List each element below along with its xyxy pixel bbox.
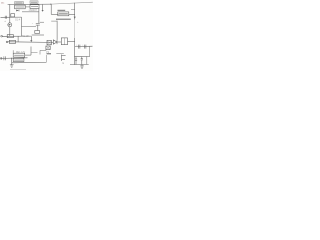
wire top rail right (fainter) bbox=[51, 2, 93, 4]
wire vertical x=51.2 from rail bbox=[50, 4, 52, 14]
wire top rail left bbox=[8, 3, 52, 5]
wire vertical x=46.3 bbox=[45, 55, 47, 62]
wire U2 to right rail bbox=[68, 41, 75, 43]
wire vertical x=40 bbox=[39, 50, 41, 54]
capacitor C7 plates bbox=[3, 56, 5, 60]
capacitor C1 plates bbox=[4, 16, 6, 19]
wire vertical x=89.6 bbox=[89, 46, 91, 56]
junction bottom right bbox=[74, 56, 75, 57]
IC U3 label text bbox=[58, 9, 66, 11]
wire to C2 from x=21.5 bbox=[22, 26, 37, 28]
dark dash bbox=[47, 53, 52, 55]
label near C2 bbox=[40, 21, 44, 23]
rectifier B1 box bbox=[15, 5, 26, 9]
capacitor C8 bbox=[75, 57, 77, 59]
wire vertical x=46 bbox=[45, 49, 47, 52]
wire to IC box bbox=[51, 13, 58, 15]
wire input y=17.2 bbox=[1, 16, 22, 18]
relay box K1 bbox=[13, 53, 25, 57]
wire U3 right to rail bbox=[69, 14, 75, 16]
wire stub x=42.6 with arrow bbox=[42, 5, 44, 11]
bottom main wire bbox=[1, 57, 28, 60]
ground G1 bbox=[11, 58, 13, 64]
capacitor C2 plates bbox=[36, 22, 40, 24]
arrow down (ground stub) bbox=[30, 36, 32, 41]
resistor R1 box bbox=[7, 35, 13, 38]
wire vertical x=86.8 bbox=[86, 56, 88, 64]
wire vertical x=57.1 bbox=[56, 21, 58, 40]
right rail vertical x=74.7 bbox=[74, 3, 76, 20]
diode D below B1 bbox=[16, 10, 19, 12]
LED D5 bbox=[9, 17, 11, 23]
component P2 box with X bbox=[46, 46, 50, 50]
svg-text:AC: AC bbox=[1, 2, 4, 5]
component box C3 bbox=[35, 31, 40, 34]
wire horizontal y=11.8 from B1 area to vertical bbox=[22, 11, 39, 13]
arrowhead on rail bbox=[74, 17, 76, 19]
svg-text:D1-4: D1-4 bbox=[15, 19, 21, 21]
connector J2 bbox=[61, 55, 63, 62]
component box on wire bbox=[11, 14, 15, 17]
wire y=21.1 bbox=[51, 20, 57, 22]
wire B1 to U1 bbox=[25, 6, 30, 8]
transformer T1 label box bbox=[15, 2, 24, 4]
capacitor C9 bbox=[81, 57, 83, 59]
wire relay contact right bbox=[31, 52, 38, 54]
capacitor C6 bbox=[83, 45, 85, 49]
terminal bottom left bbox=[0, 58, 2, 60]
regulator U1 label box bbox=[30, 1, 38, 4]
box K1b bbox=[13, 58, 24, 61]
svg-text:1N4007: 1N4007 bbox=[29, 9, 38, 12]
junction on rail bbox=[50, 4, 51, 5]
faint bottom rail bbox=[10, 69, 26, 71]
wire y=50.4 bbox=[40, 49, 46, 51]
label row under C3 bbox=[32, 34, 44, 36]
faint label bbox=[56, 52, 64, 54]
wire y=45.8 right bbox=[75, 45, 93, 47]
bottom right wire y=64.5 bbox=[70, 63, 89, 65]
IC U3 box bbox=[58, 12, 69, 16]
junction bbox=[11, 58, 12, 59]
wire vertical under U1 x=38.9 bbox=[38, 9, 40, 24]
stub wire bbox=[71, 9, 75, 11]
wire K1 right bbox=[25, 54, 31, 56]
wire triangle to U2 bbox=[57, 41, 61, 43]
wire y=62.6 bbox=[12, 61, 47, 63]
wire vertical x=21.5 bbox=[21, 17, 23, 36]
component P1 box with X bbox=[47, 40, 51, 44]
regulator U1 box bbox=[30, 5, 39, 9]
wire vertical x=31 bbox=[30, 47, 32, 56]
text row under box bbox=[56, 18, 71, 20]
svg-text:RE1 12V: RE1 12V bbox=[16, 52, 26, 54]
ground G2 bbox=[81, 65, 83, 66]
diode D6 triangle bbox=[53, 40, 57, 44]
resistor R2 box bbox=[9, 40, 15, 43]
relay stub up bbox=[12, 50, 14, 53]
capacitor C5 bbox=[77, 45, 79, 49]
wire vertical x=18.1 bbox=[17, 36, 19, 42]
wire row1 y=36.2 bbox=[2, 35, 31, 37]
terminal row2 bbox=[6, 41, 8, 43]
wire vertical from rail at x=9.8 bbox=[9, 4, 11, 17]
bottom right wire y=56.5 bbox=[75, 55, 90, 57]
terminal row1 bbox=[1, 35, 3, 37]
IC U2 box bbox=[61, 38, 67, 45]
svg-text:R1 10k: R1 10k bbox=[22, 36, 30, 38]
wire row2 y=41.9 bbox=[8, 41, 54, 44]
